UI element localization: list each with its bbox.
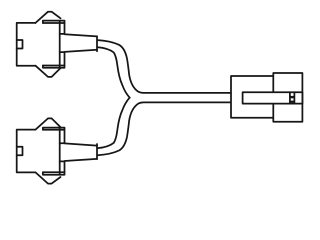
connector P3 housing (C-shaped shell) [231, 76, 274, 118]
connector P1 (upper-left plug) body outline [17, 23, 36, 66]
terminal blade end detail [290, 92, 295, 103]
connector P1 bottom latch arm [43, 52, 65, 68]
connector P3 right block [273, 73, 302, 122]
connector P1 bottom latch [36, 66, 61, 77]
connector P3 terminal bar (blade) [243, 92, 303, 103]
connector P1 body right edge [59, 21, 61, 68]
connector P2 bottom latch arm [43, 161, 65, 174]
connector P1 top latch arm [43, 21, 65, 34]
connector P1 top latch [36, 12, 61, 23]
connector P1 keying notch [17, 40, 23, 49]
connector P2 wire boot [65, 143, 98, 161]
connector P2 (lower-left plug) body outline [17, 130, 36, 173]
connector P2 top latch arm [43, 128, 65, 144]
wire branch B (lower cable to Y-junction) [98, 98, 231, 156]
connector P1 wire boot [65, 34, 98, 52]
connector P2 top latch [36, 118, 61, 129]
connector P2 body right edge [59, 128, 61, 175]
wire branch A (upper cable to Y-junction) [98, 40, 231, 98]
connector P2 keying notch [17, 147, 23, 156]
connector P2 bottom latch [36, 172, 61, 183]
